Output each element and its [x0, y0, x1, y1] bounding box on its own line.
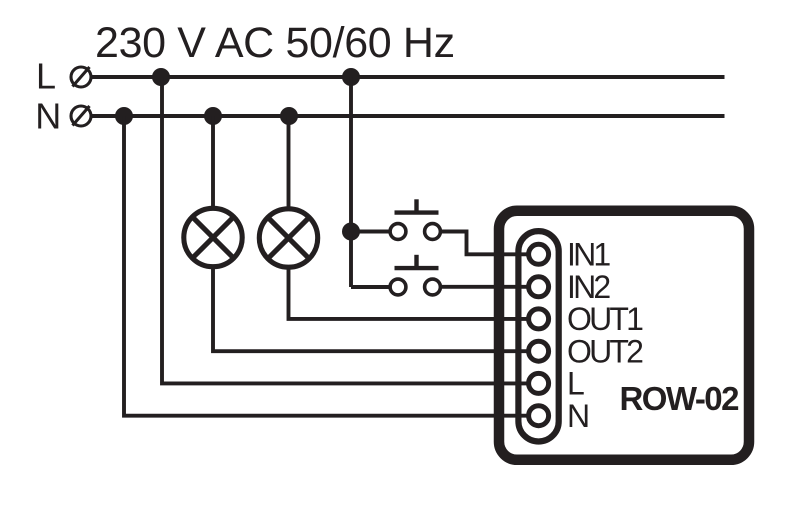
- terminal symbol N: [71, 106, 91, 126]
- wire L bus to button branch: [349, 77, 353, 287]
- svg-text:IN1: IN1: [567, 237, 610, 273]
- module terminal strip: [518, 231, 558, 441]
- wire node to button S2: [351, 285, 390, 289]
- push button S1: [390, 199, 440, 239]
- svg-text:N: N: [567, 398, 588, 434]
- node at button branch: [342, 223, 360, 241]
- svg-text:IN2: IN2: [567, 269, 610, 305]
- wire lamp E1 to OUT2: [213, 268, 527, 351]
- node on N bus at x213: [204, 107, 222, 125]
- wire node to button S1: [351, 230, 390, 234]
- push button S2: [390, 255, 440, 295]
- wire lamp E2 to OUT1: [289, 269, 527, 319]
- svg-text:N: N: [35, 96, 61, 137]
- wire L bus to L terminal: [162, 77, 527, 383]
- lamp E1: [184, 208, 242, 266]
- terminal IN2: [529, 277, 549, 297]
- terminal OUT1: [529, 309, 549, 329]
- wire N bus: [92, 114, 725, 118]
- svg-text:OUT2: OUT2: [567, 334, 643, 370]
- svg-text:OUT1: OUT1: [567, 301, 643, 337]
- wire N bus to lamp E2: [287, 116, 291, 208]
- wire N bus to lamp E1: [211, 116, 215, 207]
- svg-text:L: L: [567, 366, 584, 402]
- lamp E2: [259, 209, 317, 267]
- terminal IN1: [529, 244, 549, 264]
- wire L bus: [92, 75, 725, 79]
- wire button S2 to IN2: [440, 285, 526, 289]
- terminal N: [529, 406, 549, 426]
- node on N bus at x289: [280, 107, 298, 125]
- wire N bus to N terminal: [124, 116, 527, 416]
- node on N bus at x124: [115, 107, 133, 125]
- svg-text:230 V AC 50/60 Hz: 230 V AC 50/60 Hz: [95, 19, 455, 67]
- svg-text:L: L: [36, 56, 56, 97]
- node on L bus at x161: [152, 68, 170, 86]
- terminal OUT2: [529, 341, 549, 361]
- node on L bus at x351: [342, 68, 360, 86]
- module ROW-02 body: [499, 211, 749, 460]
- terminal symbol L: [71, 67, 91, 87]
- wire button S1 to IN1: [440, 232, 526, 255]
- svg-text:ROW-02: ROW-02: [620, 380, 740, 417]
- terminal L: [529, 373, 549, 393]
